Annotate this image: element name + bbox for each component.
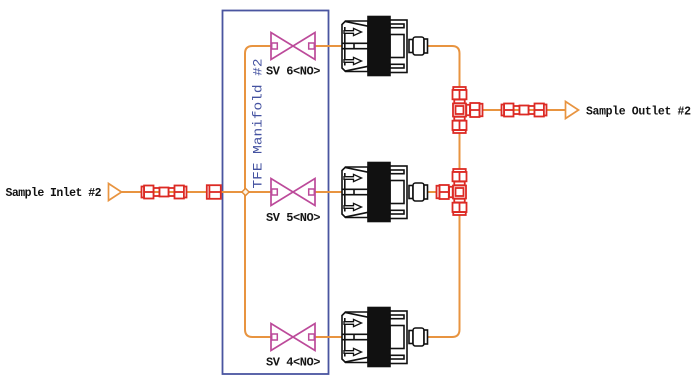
svg-text:SV 5<NO>: SV 5<NO> bbox=[266, 211, 321, 225]
svg-text:Sample Inlet #2: Sample Inlet #2 bbox=[6, 187, 102, 200]
svg-text:TFE Manifold #2: TFE Manifold #2 bbox=[251, 59, 266, 189]
svg-text:SV 4<NO>: SV 4<NO> bbox=[266, 355, 321, 369]
svg-text:SV 6<NO>: SV 6<NO> bbox=[266, 64, 321, 78]
svg-text:Sample Outlet #2: Sample Outlet #2 bbox=[586, 106, 691, 119]
